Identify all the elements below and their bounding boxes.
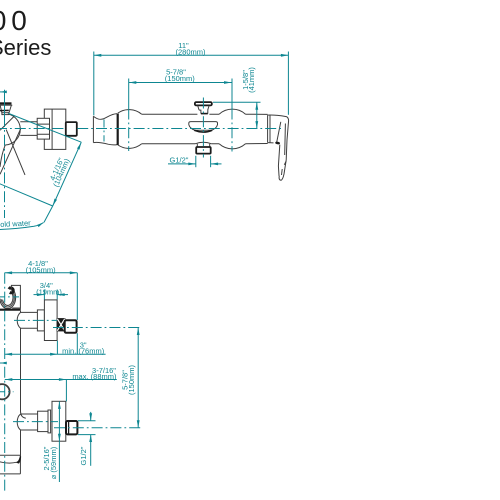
body bottom cap [0,455,21,474]
wedge extension line A (knob to dim) [9,113,82,142]
plan G1/2 outlet nut (bold) [196,147,211,154]
top union outer centerline / extension [53,327,142,329]
spout outlet circle [0,384,10,399]
top union pipe centerline [14,319,57,321]
svg-text:(150mm): (150mm) [127,365,136,396]
spout circle centerline [0,391,14,393]
side wall pipe [20,122,37,136]
extension/centerline left union [128,79,130,152]
short centerline left end piece [103,120,105,142]
plan G1/2 boss dome arc [195,142,212,144]
bottom union pipe centerline [13,421,58,423]
svg-text:⌀ (59mm): ⌀ (59mm) [49,446,58,479]
top union pipe [17,312,37,328]
dimension 5-7/8" (150mm) line [129,81,232,84]
cold water text [0,218,31,229]
dimension 5-7/8" vertical text [121,370,130,390]
bottom union pipe [17,414,37,430]
side view vertical centerline [4,90,6,218]
svg-text:0: 0 [11,5,27,36]
svg-text:max. (88mm): max. (88mm) [72,372,117,381]
dimension (19mm) text [36,287,62,296]
dimension (105mm) text [26,265,57,274]
dimension (280mm) text [175,48,206,57]
plan spout outline [189,122,218,131]
svg-text:G1/2": G1/2" [170,156,189,165]
extension line escutcheon face (min) [56,341,58,355]
extension line escutcheon face (max) [65,380,67,402]
hook centerline [0,296,19,298]
bottom union ring band [48,410,51,433]
dimension G1/2" (plan) text [170,156,189,165]
side knob flange (bold) [0,104,12,106]
top escutcheon [44,300,57,341]
dimension 5-7/8" text [166,68,186,77]
side wall stub pipe (bold) [66,122,77,136]
plan end cap slanted edge [277,122,281,143]
svg-text:G1/2": G1/2" [79,446,88,465]
plan spout inner lip arc (bold) [194,130,212,132]
dimension (104mm) text [51,157,72,189]
plan handle lever [268,115,289,180]
top union nut [37,310,44,331]
cut-off dimension arrow at top left [0,91,7,94]
title text product number (cut off at left edge) [0,5,27,36]
dimension 4-1/8" text [28,259,48,268]
side body circle arc [5,114,20,145]
shower hook ring [0,287,16,309]
horizontal centerline of body (both views) [0,128,283,130]
side handle teardrop upper line [0,117,14,131]
plan body tube top edge [142,113,268,115]
wedge extension line B (handle to dim) [0,182,53,206]
plan body right end rim [268,115,274,143]
svg-text:(19mm): (19mm) [36,287,62,296]
dimension 3/4" text [40,281,53,290]
dimension min (76mm) text [62,347,105,356]
plan left union thick edge [117,114,119,145]
extension line knob top [213,101,261,103]
extension line left end of 11" [93,52,95,116]
plan left end piece (concave break) [93,114,117,145]
svg-text:min. (76mm): min. (76mm) [62,347,105,356]
side knob cone [0,106,11,115]
dimension max (88mm) text [72,372,117,381]
svg-text:0: 0 [0,5,6,36]
side escutcheon plate [44,109,66,149]
dimension 5-7/8" (150mm) vertical line [137,328,140,428]
dimension 2-5/16" dia 59mm vertical line [58,401,61,482]
dimension 1-5/8" text [241,70,250,90]
side hex union nut [37,118,49,139]
svg-text:(150mm): (150mm) [165,74,196,83]
top eccentric threaded piece (bold with cross) [57,319,64,331]
side knob rim (bold) [0,109,9,111]
bottom union outer centerline / extension [54,427,142,429]
cut-off dimension arrow mid body [0,362,7,365]
dimension 3" text [80,340,87,349]
dimension (150mm) text [165,74,196,83]
extension/centerline right union [231,79,233,152]
bottom union nut [38,411,48,431]
dimension 4-1/16" text [48,156,66,182]
dimension G1/2" (plan) lines and arrows [168,156,222,167]
dimension dia (59mm) text [49,446,58,479]
extension line right end of 11" [287,52,289,115]
dimension G1/2" (bottom) lines [78,412,96,466]
connector line wedge to arc [44,206,53,222]
hook bracket plate [11,285,20,308]
dimension 3-7/16" max (88mm) line [5,378,117,381]
vertical centerline through diverter knob [202,98,204,158]
top wall stub nut (bold) [65,320,77,333]
body right edge [21,311,26,456]
plan diverter knob flange (bold) [195,102,212,105]
title text series (cut off at left edge) [0,35,51,60]
dimension G1/2" (bottom) text [79,446,88,465]
dimension 1-5/8" (41mm) line [255,102,258,128]
dimension 4-1/16" (104mm) diagonal line [53,142,82,206]
plan G1/2 outlet neck [197,144,209,147]
dimension (150mm) vertical text [127,365,136,396]
svg-text:(280mm): (280mm) [175,48,206,57]
dimension (41mm) text [247,67,256,93]
bottom G1/2 stub (bold) [66,421,77,434]
dimension 3-7/16" text [92,366,116,375]
side handle lever lines (two positions) [0,128,25,175]
bottom escutcheon [52,401,66,441]
dimension 11" (280mm) line [94,54,289,57]
dimension 3/4" (19mm) lines [34,290,69,300]
plan right escutcheon balloon arcs [219,109,245,149]
dimension 4-1/8" (105mm) line [5,271,78,274]
svg-text:(105mm): (105mm) [26,265,57,274]
cold water rotation arc [0,222,44,229]
svg-text:Series: Series [0,35,51,60]
plan left escutcheon balloon arcs [118,110,142,149]
dimension 11" text [178,41,189,50]
body top bar (bold) [0,309,21,311]
dimension 2-5/16" text [42,446,51,470]
dimension 3" min (76mm) line [5,353,106,356]
extension line right of 105mm [76,273,78,355]
plan diverter knob stem [198,106,209,114]
plan body tube bottom edge [142,143,268,145]
bottom view vertical body centerline [4,273,6,491]
svg-text:cold water: cold water [0,218,31,229]
svg-text:(41mm): (41mm) [247,67,256,93]
